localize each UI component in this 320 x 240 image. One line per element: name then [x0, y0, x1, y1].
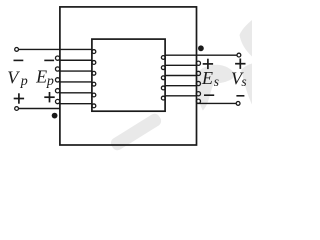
secondary winding outer-side loops	[196, 61, 200, 103]
minus sign over Vp	[14, 59, 24, 61]
wire: primary top lead + first turn	[19, 48, 92, 50]
minus sign under Es	[204, 94, 214, 96]
plus sign over Es	[203, 59, 213, 69]
minus sign over Ep	[44, 59, 54, 61]
watermark corner wedge top-right	[240, 20, 253, 57]
watermark swoosh hook	[195, 65, 236, 111]
plus sign over Vs	[235, 59, 245, 69]
transformer core: outer rectangle	[60, 7, 197, 145]
svg-text:Vp: Vp	[7, 67, 27, 89]
minus sign under Vs	[236, 95, 244, 97]
secondary winding turns	[165, 65, 196, 95]
terminal: secondary top	[237, 53, 241, 57]
primary winding inner-side loops	[92, 50, 96, 108]
plus sign under Ep	[44, 92, 54, 102]
svg-text:Ep: Ep	[35, 67, 54, 89]
wire: secondary top lead + first turn	[165, 54, 237, 56]
primary winding outer-side loops	[55, 56, 59, 104]
plus sign under Vp	[14, 93, 24, 103]
phase dot primary	[52, 113, 58, 119]
phase dot secondary	[198, 45, 204, 51]
terminal: primary bottom	[15, 107, 19, 111]
transformer core: inner rectangle (window)	[92, 39, 165, 111]
wire: secondary bottom lead	[197, 102, 237, 104]
terminal: secondary bottom	[236, 102, 240, 106]
primary winding turns	[60, 60, 92, 103]
wire: primary bottom lead	[19, 108, 60, 110]
watermark band bottom-center	[109, 112, 163, 153]
terminal: primary top	[15, 48, 19, 52]
watermark band right edge	[241, 64, 252, 105]
secondary winding inner-side loops	[161, 56, 165, 100]
